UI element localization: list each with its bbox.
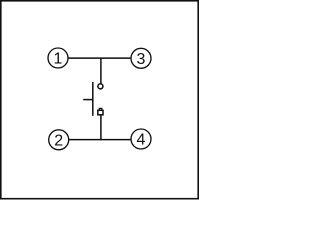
wire pin2 to pin4 (bottom horizontal) [69, 139, 131, 141]
svg-text:2: 2 [54, 132, 63, 149]
svg-text:4: 4 [137, 132, 146, 149]
switch S1 moving contact (square with tab) [98, 108, 103, 114]
node 2 (pin 2 circle) [49, 130, 69, 150]
switch S1 fixed contact (open circle) [98, 84, 103, 89]
node 1 (pin 1 circle) [48, 48, 68, 68]
wire switch moving contact to bottom junction (vertical) [100, 115, 102, 140]
border frame [1, 1, 198, 199]
node 3 (pin 3 circle) [131, 48, 151, 68]
switch S1 actuator bar (vertical) [92, 82, 94, 116]
node 4 (pin 4 circle) [131, 129, 151, 149]
switch S1 actuator stem (horizontal) [83, 99, 93, 101]
wire top junction to switch fixed contact (vertical) [100, 58, 102, 83]
wire pin1 to pin3 (top horizontal) [68, 57, 130, 59]
svg-text:3: 3 [137, 51, 146, 68]
svg-text:1: 1 [54, 51, 63, 68]
